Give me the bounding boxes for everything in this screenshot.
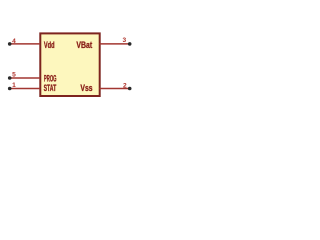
svg-text:2: 2 <box>123 82 127 89</box>
svg-text:1: 1 <box>12 82 16 89</box>
pin 1 wire <box>10 88 40 90</box>
pin 4 wire <box>10 43 40 45</box>
component body U1 (charger IC) <box>40 33 99 96</box>
pin 1 end dot <box>8 87 12 91</box>
pin 5 wire <box>10 77 40 79</box>
svg-text:4: 4 <box>12 38 16 45</box>
pin 3 end dot <box>128 42 132 46</box>
svg-text:5: 5 <box>12 72 16 79</box>
svg-text:VBat: VBat <box>76 40 92 50</box>
svg-text:3: 3 <box>122 37 126 44</box>
svg-text:Vdd: Vdd <box>44 40 55 50</box>
svg-text:PROG: PROG <box>44 73 57 83</box>
pin 3 wire <box>100 43 130 45</box>
pin 2 wire <box>100 88 130 90</box>
pin 2 end dot <box>128 87 132 91</box>
svg-text:STAT: STAT <box>44 83 57 93</box>
svg-text:Vss: Vss <box>80 83 92 93</box>
pin 5 end dot <box>8 76 12 80</box>
pin 4 end dot <box>8 42 12 46</box>
